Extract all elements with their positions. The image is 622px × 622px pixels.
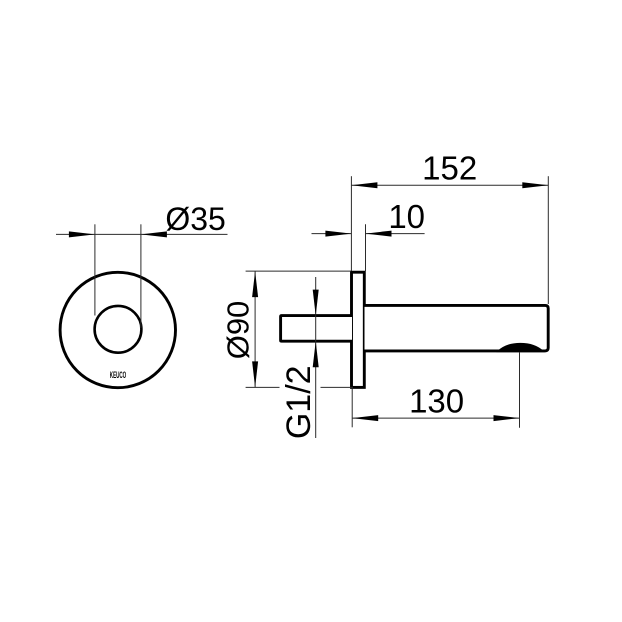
dimension 152 extension line left	[350, 176, 352, 271]
svg-text:G1/2: G1/2	[280, 365, 318, 439]
G1/2 connection stub	[281, 316, 352, 342]
dimension Ø90 arrow top	[252, 271, 258, 297]
spout bore inner circle (front view)	[95, 306, 142, 353]
dimension 10 arrow left	[325, 231, 351, 237]
dimension 152 extension line right	[547, 176, 549, 304]
dimension 10 extension line right	[365, 224, 367, 271]
dimension Ø90 extension line bottom left part	[246, 386, 280, 388]
dimension 152 arrow left	[351, 182, 377, 188]
dimension 130 arrow left	[352, 415, 378, 421]
dimension Ø35 extension line right	[140, 224, 142, 328]
dimension Ø90 extension line top	[246, 270, 351, 272]
svg-text:152: 152	[422, 150, 477, 187]
dimension Ø35 arrow left	[69, 231, 95, 237]
dimension Ø35 extension line left	[94, 224, 96, 315]
dimension 10 arrow right	[366, 231, 392, 237]
svg-text:KEUCO: KEUCO	[110, 369, 127, 380]
dimension 10 line right part	[366, 233, 425, 235]
dimension 130 arrow right	[494, 415, 520, 421]
aerator recess arc	[498, 343, 544, 351]
dimension 152 line	[351, 184, 548, 186]
dimension G1/2 arrow top	[313, 290, 319, 316]
spout tube (side view)	[365, 305, 549, 351]
dimension 152 arrow right	[522, 182, 548, 188]
dimension 130 extension line left	[351, 389, 353, 428]
dimension Ø90 extension line bottom right part	[321, 386, 354, 388]
svg-text:130: 130	[409, 383, 464, 420]
dimension 130 extension line right	[519, 353, 521, 428]
dimension Ø35 arrow right	[141, 231, 167, 237]
dimension Ø90 line	[254, 271, 256, 387]
dimension G1/2 arrow bottom	[313, 341, 319, 367]
svg-text:10: 10	[388, 198, 425, 235]
dimension Ø90 arrow bottom	[252, 361, 258, 387]
svg-text:Ø35: Ø35	[165, 201, 225, 237]
svg-text:Ø90: Ø90	[221, 301, 256, 360]
dimension 130 line	[352, 417, 519, 419]
dimension 10 line left part	[312, 233, 352, 235]
wall flange (side view)	[352, 272, 365, 387]
dimension Ø35 line	[56, 233, 228, 235]
dimension G1/2 line	[315, 277, 317, 438]
flange outer circle (front view)	[60, 272, 175, 387]
